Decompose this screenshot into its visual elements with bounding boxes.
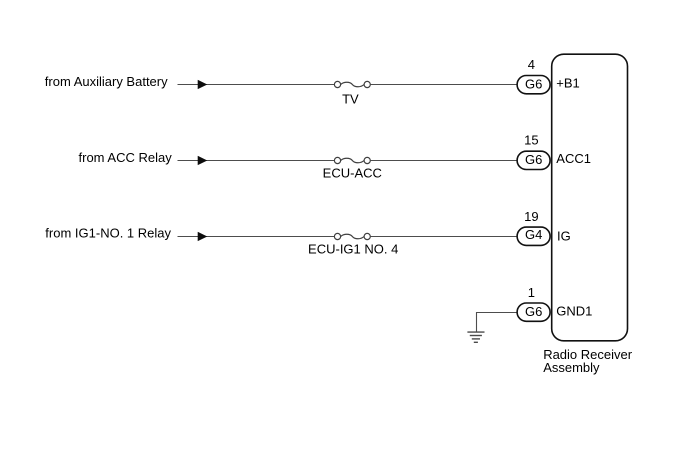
- fuse ECU-ACC: [334, 157, 370, 163]
- wire row2 right: [370, 160, 516, 162]
- node from Auxiliary Battery: [45, 74, 168, 89]
- svg-text:from Auxiliary Battery: from Auxiliary Battery: [45, 74, 168, 89]
- svg-text:ECU-ACC: ECU-ACC: [323, 165, 382, 180]
- svg-text:G6: G6: [525, 304, 542, 319]
- pin 15: [524, 132, 538, 147]
- fuse TV value label: [342, 92, 359, 107]
- wire ground: [477, 313, 517, 332]
- wire row1 right: [370, 84, 516, 86]
- ground: [467, 332, 484, 342]
- radio receiver assembly label: [543, 347, 633, 375]
- svg-text:from ACC Relay: from ACC Relay: [79, 150, 173, 165]
- wire row3 left with flow arrow: [178, 232, 335, 240]
- svg-text:+B1: +B1: [556, 76, 580, 91]
- svg-text:4: 4: [528, 57, 535, 72]
- pin 4: [528, 57, 535, 72]
- svg-text:TV: TV: [342, 92, 359, 107]
- connector G4 row3: [517, 227, 550, 246]
- pin label IG: [557, 228, 571, 243]
- svg-text:19: 19: [524, 209, 538, 224]
- svg-text:1: 1: [528, 285, 535, 300]
- pin 1: [528, 285, 535, 300]
- wire row1 left with flow arrow: [178, 80, 335, 88]
- fuse ECU-ACC value label: [323, 165, 382, 180]
- svg-text:GND1: GND1: [556, 303, 592, 318]
- svg-text:Assembly: Assembly: [543, 360, 600, 375]
- svg-text:ACC1: ACC1: [556, 151, 591, 166]
- svg-text:G6: G6: [525, 152, 542, 167]
- pin label +B1: [556, 76, 580, 91]
- fuse TV: [334, 81, 370, 87]
- svg-text:G4: G4: [525, 227, 542, 242]
- fuse ECU-IG1 NO. 4: [334, 233, 370, 239]
- radio receiver assembly box: [552, 54, 628, 341]
- pin label GND1: [556, 303, 592, 318]
- wire row3 right: [370, 236, 516, 238]
- svg-text:ECU-IG1 NO. 4: ECU-IG1 NO. 4: [308, 241, 398, 256]
- wire row2 left with flow arrow: [178, 156, 335, 164]
- node from ACC Relay: [79, 150, 173, 165]
- connector G6 row4: [517, 303, 550, 321]
- svg-text:IG: IG: [557, 228, 571, 243]
- fuse ECU-IG1 NO. 4 value label: [308, 241, 398, 256]
- connector G6 row2: [517, 151, 550, 169]
- svg-text:from IG1-NO. 1 Relay: from IG1-NO. 1 Relay: [45, 226, 171, 241]
- svg-text:G6: G6: [525, 77, 542, 92]
- connector G6 row1: [517, 76, 550, 94]
- pin label ACC1: [556, 151, 591, 166]
- pin 19: [524, 209, 538, 224]
- node from IG1-NO. 1 Relay: [45, 226, 171, 241]
- svg-text:15: 15: [524, 132, 538, 147]
